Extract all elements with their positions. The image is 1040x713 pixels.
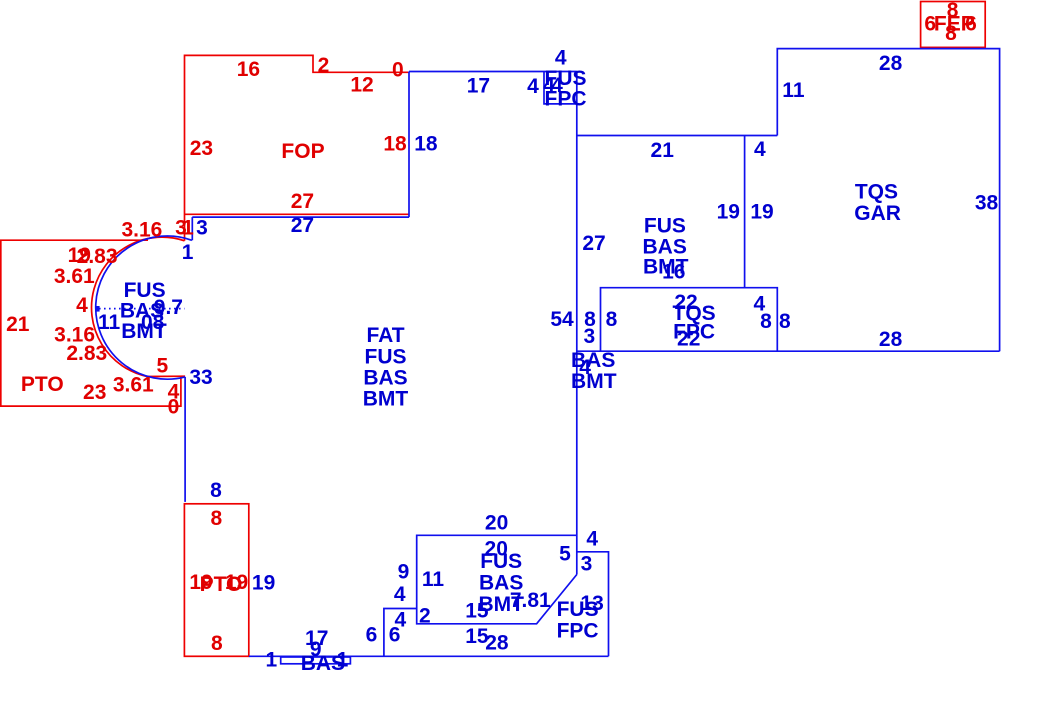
svg-text:54: 54: [550, 308, 574, 331]
svg-text:3: 3: [583, 325, 595, 348]
svg-text:28: 28: [485, 631, 509, 654]
svg-text:21: 21: [6, 313, 30, 336]
svg-text:1: 1: [265, 649, 277, 672]
svg-text:PTO: PTO: [21, 373, 64, 396]
svg-text:FUS: FUS: [365, 345, 407, 368]
blue wall x=744.6: [744, 136, 746, 288]
svg-text:23: 23: [190, 137, 213, 160]
svg-text:3.61: 3.61: [54, 265, 95, 288]
TQS GAR outline: [577, 49, 1000, 352]
svg-text:FPC: FPC: [557, 620, 599, 643]
svg-text:38: 38: [975, 192, 999, 215]
svg-text:1: 1: [182, 241, 194, 264]
svg-text:27: 27: [291, 214, 314, 237]
svg-text:5: 5: [157, 355, 169, 378]
svg-text:3: 3: [581, 553, 593, 576]
svg-text:19: 19: [717, 201, 740, 224]
FOP porch red outline: [185, 55, 409, 240]
svg-text:8: 8: [211, 632, 223, 655]
svg-text:BMT: BMT: [571, 370, 617, 393]
blue main wall y=216.5: [192, 216, 409, 218]
svg-text:6: 6: [366, 623, 378, 646]
bottom wall y=656.3: [249, 655, 609, 657]
svg-text:11: 11: [422, 568, 445, 591]
svg-text:2.83: 2.83: [66, 342, 107, 365]
red bay arc: [92, 237, 186, 376]
blue wall y=135.5: [577, 135, 778, 137]
svg-text:17: 17: [467, 75, 490, 98]
svg-text:11: 11: [782, 79, 805, 102]
blue wall x=409: [408, 72, 410, 218]
svg-text:08: 08: [141, 311, 165, 334]
svg-text:2: 2: [318, 54, 330, 77]
svg-text:19: 19: [252, 572, 275, 595]
svg-text:4: 4: [551, 74, 563, 97]
svg-text:3.61: 3.61: [113, 374, 154, 397]
svg-text:FOP: FOP: [281, 140, 324, 163]
svg-text:1: 1: [182, 216, 194, 239]
TQS FPC box: [601, 288, 778, 352]
svg-text:3.16: 3.16: [121, 219, 162, 242]
svg-text:18: 18: [383, 133, 407, 156]
svg-text:27: 27: [582, 232, 605, 255]
svg-text:8: 8: [606, 308, 618, 331]
svg-text:22: 22: [677, 327, 700, 350]
svg-text:2: 2: [419, 605, 431, 628]
svg-text:GAR: GAR: [854, 202, 901, 225]
PTO patio red outline: [1, 240, 181, 406]
svg-text:FAT: FAT: [366, 324, 404, 347]
BAS strip rect: [281, 657, 351, 664]
svg-text:20: 20: [485, 512, 508, 535]
svg-text:8: 8: [779, 310, 791, 333]
svg-text:0: 0: [392, 59, 404, 82]
svg-text:8: 8: [945, 22, 957, 45]
svg-text:FUS: FUS: [557, 598, 599, 621]
blue long vertical x=576.8: [576, 72, 578, 575]
svg-text:6: 6: [389, 623, 401, 646]
svg-text:4: 4: [394, 583, 406, 606]
svg-text:16: 16: [662, 260, 685, 283]
svg-text:4: 4: [76, 294, 88, 317]
svg-text:7.81: 7.81: [510, 589, 551, 612]
svg-text:8: 8: [210, 507, 222, 530]
svg-text:18: 18: [414, 133, 438, 156]
svg-text:TQS: TQS: [855, 181, 898, 204]
svg-text:1: 1: [337, 649, 349, 672]
blue vertical below bay: [184, 377, 186, 502]
bay apex square marker: [95, 306, 100, 312]
svg-text:21: 21: [651, 139, 675, 162]
svg-text:11: 11: [98, 311, 121, 334]
svg-text:12: 12: [350, 74, 373, 97]
bay chord dotted line: [99, 308, 184, 310]
svg-text:4: 4: [527, 75, 539, 98]
svg-text:15: 15: [465, 600, 489, 623]
svg-text:BMT: BMT: [363, 387, 409, 410]
svg-text:19: 19: [225, 571, 248, 594]
svg-text:BAS: BAS: [363, 366, 407, 389]
svg-text:5: 5: [559, 543, 571, 566]
svg-text:9: 9: [398, 560, 410, 583]
svg-text:8: 8: [210, 479, 222, 502]
svg-text:3: 3: [196, 216, 208, 239]
svg-text:23: 23: [83, 381, 106, 404]
blue corner at bay: [191, 217, 193, 240]
FUS FPC small box top: [544, 72, 577, 104]
svg-text:33: 33: [189, 366, 212, 389]
svg-text:27: 27: [291, 190, 314, 213]
svg-text:16: 16: [237, 58, 260, 81]
svg-text:0: 0: [168, 396, 180, 419]
svg-text:28: 28: [879, 52, 903, 75]
svg-text:BAS: BAS: [571, 349, 615, 372]
svg-text:FUS: FUS: [644, 215, 686, 238]
FEP red box top right: [921, 2, 986, 48]
svg-text:8: 8: [760, 310, 772, 333]
step at bottom: [384, 609, 417, 657]
bottom right FUS FPC box: [577, 552, 609, 657]
blue bay half ellipse: [96, 236, 192, 379]
svg-text:FUS: FUS: [480, 550, 522, 573]
svg-text:4: 4: [754, 138, 766, 161]
svg-text:4: 4: [586, 527, 598, 550]
svg-text:6: 6: [965, 13, 977, 36]
svg-text:19: 19: [750, 201, 773, 224]
PTO lower red box: [184, 504, 248, 657]
blue wall y=71.5: [409, 71, 577, 73]
svg-text:28: 28: [879, 328, 903, 351]
bottom middle box FUS BAS BMT: [417, 535, 577, 624]
